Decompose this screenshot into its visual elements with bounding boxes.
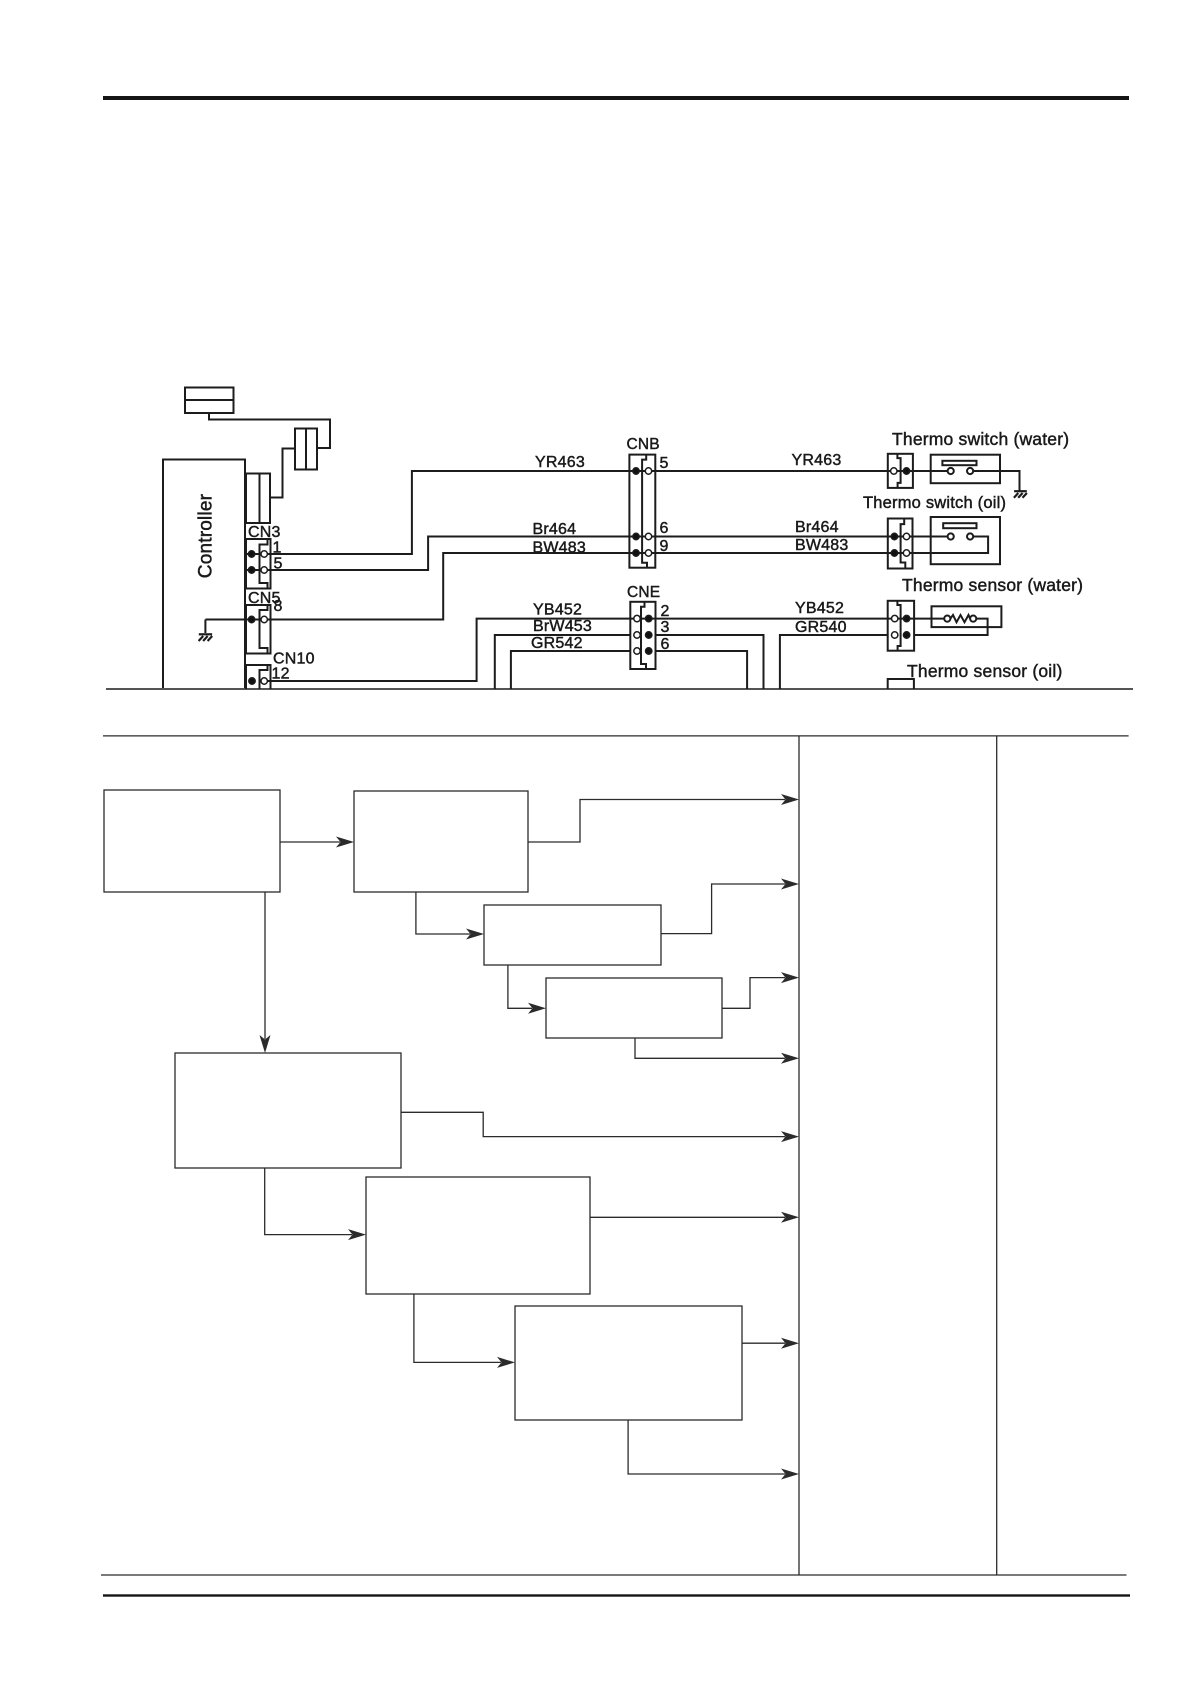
svg-text:Controller: Controller [196, 493, 217, 578]
wire YB452 : CN10 pin12 to CNE pin2 to thermo sensor water [266, 619, 944, 681]
CN3 pin 5 dots [248, 567, 254, 573]
schematic pin dots [248, 468, 909, 684]
thermo switch S2 (oil) [931, 517, 1000, 564]
svg-text:Br464: Br464 [533, 521, 577, 538]
CNE pin 3 dots [634, 632, 640, 638]
connector (unlabeled, on controller) [246, 474, 270, 524]
svg-text:2: 2 [661, 603, 670, 620]
CNB pin 9 dots [633, 550, 639, 556]
table vertical line 1 [798, 736, 800, 1575]
wire return loop thermo switch oil [913, 537, 989, 554]
svg-text:YB452: YB452 [533, 602, 582, 619]
flow box G [515, 1306, 742, 1420]
svg-text:6: 6 [661, 636, 670, 653]
thermo switch water connector dots [891, 468, 897, 474]
svg-text:8: 8 [274, 598, 283, 615]
flowchart arrowheads [260, 794, 800, 1480]
connector at thermo sensor oil (cut off) [888, 679, 914, 689]
svg-text:9: 9 [660, 538, 669, 555]
relay box (unlabeled) [185, 388, 234, 414]
ground symbol (controller) [199, 634, 213, 641]
flow box A [104, 790, 280, 892]
controller U1 box [163, 460, 245, 689]
CN10 pin 12 dots [249, 678, 255, 684]
svg-text:Thermo switch (oil): Thermo switch (oil) [863, 494, 1006, 512]
wire from thermo switch water to ground [973, 471, 1019, 491]
table top line [103, 735, 1129, 737]
svg-text:12: 12 [272, 666, 290, 683]
CN3 pin 1 dots [248, 551, 254, 557]
connector CN10 body (cut off) [246, 665, 271, 689]
arrowhead A to B [336, 837, 354, 848]
inline connector (unlabeled) [295, 429, 317, 470]
svg-text:CNB: CNB [627, 436, 660, 453]
connector at thermo switch water [888, 454, 913, 488]
flow box C [484, 905, 661, 965]
flow box D [546, 978, 722, 1038]
wire CNE pin6 right, cut off [656, 651, 748, 689]
arrowhead A to E [260, 1035, 271, 1053]
arrowhead E to F [348, 1229, 366, 1240]
arrowhead E to table [781, 1131, 799, 1142]
svg-text:YR463: YR463 [792, 452, 842, 469]
arrow E to table [401, 1112, 785, 1136]
arrow A to B [280, 841, 340, 843]
svg-text:Br464: Br464 [795, 519, 839, 536]
thermo sensor R1 (water) [932, 606, 1002, 627]
SCHEMATIC [163, 388, 1027, 690]
connector at thermo sensor water [888, 601, 914, 651]
arrowhead D to table lower [781, 1053, 799, 1064]
svg-text:CNE: CNE [627, 584, 660, 601]
ground symbol (thermo switch water) [1014, 491, 1027, 498]
schematic text labels [196, 429, 1084, 683]
wire Br464 : CN3 pin5 to CNB pin6 to thermo switch oil [246, 537, 948, 571]
wire YR463 : CN3 pin1 to CNB pin5 to thermo switch water [246, 471, 948, 554]
svg-text:GR540: GR540 [795, 619, 847, 636]
wire BW483 : CN5 pin8 to CNB pin9 to thermo switch oil return [205, 553, 912, 620]
wire GR540 : thermo sensor water return, cut off [780, 635, 888, 689]
thermo sensor water connector dots row2 [892, 632, 898, 638]
arrowhead F to G [497, 1357, 515, 1368]
connector CN3 body [246, 539, 271, 589]
arrowhead B to C [466, 929, 484, 940]
arrow B to C [416, 892, 470, 934]
arrow E to F [265, 1168, 352, 1235]
arrow B to table [528, 800, 785, 843]
connector CN5 body [246, 605, 271, 654]
flow box F [366, 1177, 590, 1294]
arrow G to table upper [742, 1342, 785, 1344]
arrow A to E [264, 892, 266, 1039]
arrowhead B to table [781, 794, 799, 805]
CNE pin 6 dots [634, 648, 640, 654]
CN5 pin 8 dots [248, 616, 254, 622]
CNB pin 5 dots [633, 468, 639, 474]
arrow D to table upper [722, 978, 785, 1009]
svg-text:BW483: BW483 [795, 537, 848, 554]
wire to ground from CN5 pin8 [204, 620, 206, 634]
arrowhead F to table [781, 1212, 799, 1223]
wire BrW453 : CNE pin3 left, cut off [495, 635, 631, 689]
svg-text:3: 3 [661, 619, 670, 636]
svg-text:Thermo switch (water): Thermo switch (water) [892, 429, 1069, 449]
svg-text:BrW453: BrW453 [533, 618, 592, 635]
arrow F to table [590, 1216, 785, 1218]
wire CNE pin3 right, cut off [656, 635, 764, 689]
flow box E [175, 1053, 401, 1168]
wire from relay box to inline connector [209, 413, 330, 448]
wire return loop thermo sensor water [914, 619, 988, 635]
wire GR542 : CNE pin6 left, cut off [511, 651, 630, 689]
FLOWCHART [101, 736, 1129, 1575]
svg-text:YR463: YR463 [535, 454, 585, 471]
svg-text:CN3: CN3 [248, 524, 281, 541]
CNE pin 2 dots [634, 615, 640, 621]
connector CNE body [630, 602, 655, 669]
thermo switch oil connector dots row2 [891, 550, 897, 556]
arrow G to table lower [628, 1420, 785, 1474]
arrowhead C to table [781, 879, 799, 890]
arrowhead D to table upper [781, 972, 799, 983]
svg-text:6: 6 [660, 520, 669, 537]
table vertical line 2 [996, 736, 998, 1575]
svg-text:5: 5 [274, 556, 283, 573]
arrow F to G [414, 1294, 501, 1362]
svg-text:Thermo sensor (oil): Thermo sensor (oil) [907, 661, 1063, 681]
arrowhead G to table upper [781, 1338, 799, 1349]
wire from inline connector to controller connector [270, 449, 295, 498]
thermo switch oil connector dots row1 [891, 533, 897, 539]
schematic bottom cut line [106, 688, 1133, 690]
CNB pin 6 dots [633, 533, 639, 539]
arrowhead C to D [528, 1003, 546, 1014]
svg-text:Thermo sensor (water): Thermo sensor (water) [902, 575, 1083, 595]
page top rule [103, 96, 1129, 100]
svg-text:GR542: GR542 [531, 635, 583, 652]
svg-text:5: 5 [660, 455, 669, 472]
thermo switch S1 (water) [931, 455, 1000, 484]
arrow D to table lower [635, 1038, 785, 1058]
flow box B [354, 791, 528, 892]
thermo sensor water connector dots row1 [892, 615, 898, 621]
svg-text:1: 1 [273, 540, 282, 557]
table bottom line [101, 1574, 1127, 1576]
connector CNB body [629, 455, 655, 568]
connector at thermo switch oil [888, 519, 913, 569]
svg-text:BW483: BW483 [533, 540, 586, 557]
arrow C to table [661, 884, 785, 934]
arrowhead G to table lower [781, 1469, 799, 1480]
svg-text:YB452: YB452 [795, 600, 844, 617]
arrow C to D [508, 965, 532, 1008]
page bottom rule [103, 1594, 1130, 1596]
